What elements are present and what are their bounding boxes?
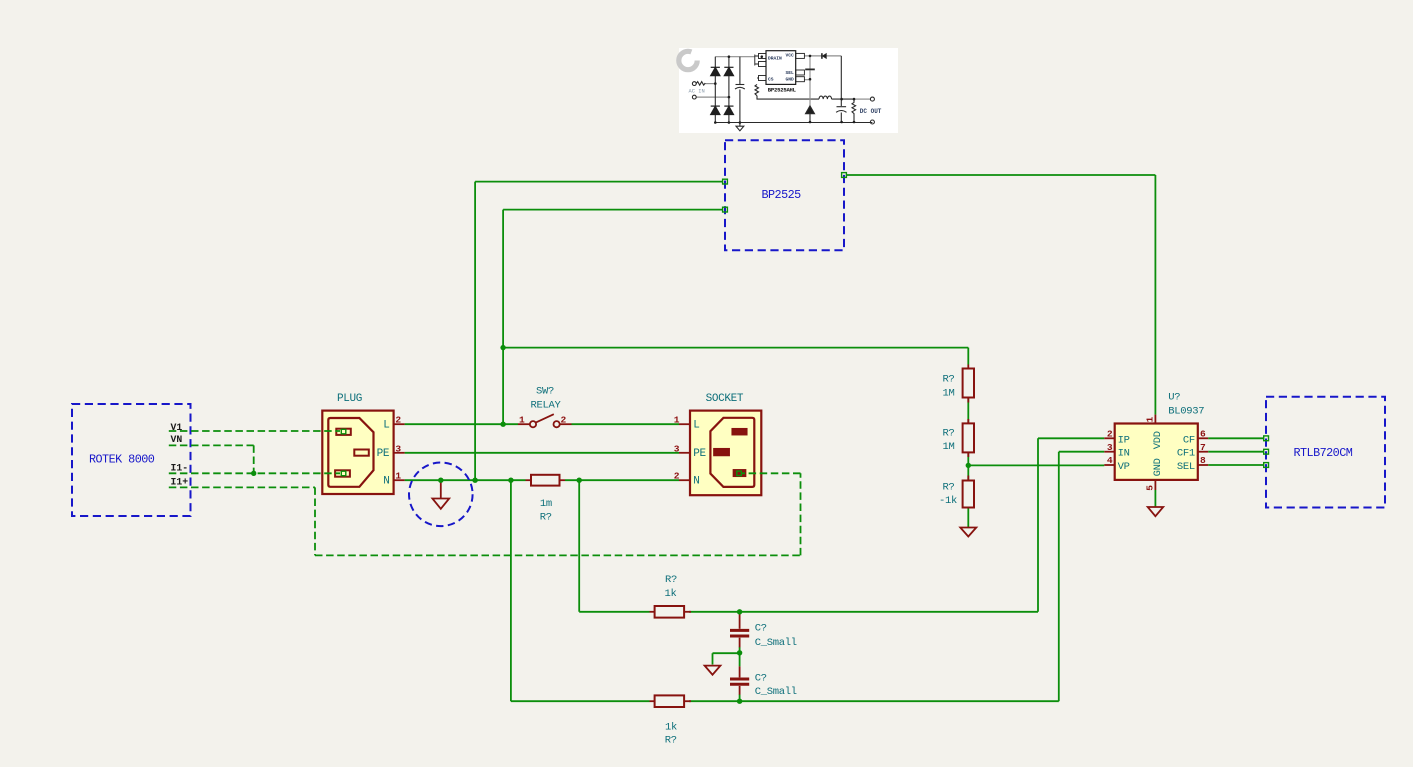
svg-text:IN: IN (1118, 448, 1130, 460)
svg-text:1M: 1M (942, 441, 954, 453)
svg-text:SOCKET: SOCKET (706, 393, 744, 405)
svg-text:C?: C? (755, 623, 767, 635)
svg-text:U?: U? (1168, 392, 1180, 404)
svg-text:2: 2 (1107, 429, 1113, 440)
svg-text:2: 2 (561, 415, 567, 426)
svg-text:ROTEK 8000: ROTEK 8000 (89, 453, 155, 467)
svg-text:C_Small: C_Small (755, 637, 797, 649)
svg-text:I1-: I1- (171, 462, 189, 473)
svg-text:1: 1 (674, 415, 680, 426)
svg-text:-1k: -1k (939, 495, 957, 507)
svg-text:C?: C? (755, 673, 767, 685)
svg-text:CF: CF (1183, 434, 1195, 446)
svg-text:GND: GND (1152, 458, 1164, 476)
svg-text:3: 3 (395, 443, 401, 454)
svg-text:1M: 1M (942, 388, 954, 400)
svg-text:7: 7 (1200, 442, 1206, 453)
svg-text:C_Small: C_Small (755, 686, 797, 698)
svg-text:VP: VP (1118, 461, 1130, 473)
svg-text:4: 4 (1107, 455, 1113, 466)
svg-text:R?: R? (540, 512, 552, 524)
svg-text:I1+: I1+ (171, 476, 189, 487)
svg-text:8: 8 (1200, 455, 1206, 466)
svg-text:CF1: CF1 (1177, 448, 1195, 460)
svg-text:CS: CS (768, 77, 774, 83)
svg-text:1k: 1k (665, 721, 677, 733)
svg-text:VN: VN (171, 434, 183, 445)
svg-text:R?: R? (942, 374, 954, 386)
svg-text:BP2525: BP2525 (762, 188, 802, 202)
svg-text:VDD: VDD (1152, 431, 1164, 449)
svg-text:R?: R? (942, 482, 954, 494)
svg-text:R?: R? (665, 574, 677, 586)
svg-text:BP2525AHL: BP2525AHL (768, 86, 797, 93)
svg-text:GND: GND (786, 77, 795, 83)
svg-text:PE: PE (377, 448, 390, 460)
svg-text:SEL: SEL (1177, 461, 1195, 473)
svg-text:1m: 1m (540, 498, 552, 510)
svg-text:3: 3 (674, 443, 680, 454)
svg-text:1: 1 (395, 471, 401, 482)
svg-text:AC IN: AC IN (689, 89, 705, 95)
svg-text:R?: R? (665, 735, 677, 747)
svg-text:DC OUT: DC OUT (860, 108, 882, 115)
svg-text:L: L (693, 420, 699, 432)
svg-text:SEL: SEL (786, 70, 795, 76)
svg-text:RTLB720CM: RTLB720CM (1294, 446, 1353, 460)
svg-text:1: 1 (519, 415, 525, 426)
svg-text:R?: R? (942, 428, 954, 440)
svg-text:6: 6 (1200, 429, 1206, 440)
svg-text:L: L (383, 420, 389, 432)
svg-text:N: N (383, 476, 389, 488)
svg-text:5: 5 (1145, 485, 1156, 491)
svg-text:PLUG: PLUG (337, 393, 362, 405)
svg-text:3: 3 (1107, 442, 1113, 453)
svg-text:2: 2 (674, 471, 680, 482)
svg-text:1: 1 (1145, 417, 1156, 423)
svg-text:IP: IP (1118, 434, 1130, 446)
svg-text:1k: 1k (664, 588, 676, 600)
svg-text:VCC: VCC (786, 53, 795, 59)
svg-text:DRAIN: DRAIN (768, 56, 782, 62)
svg-text:2: 2 (395, 415, 401, 426)
svg-text:RELAY: RELAY (530, 399, 561, 411)
svg-text:PE: PE (693, 448, 706, 460)
svg-text:SW?: SW? (536, 386, 554, 398)
svg-text:N: N (693, 476, 699, 488)
svg-text:BL0937: BL0937 (1168, 405, 1204, 417)
